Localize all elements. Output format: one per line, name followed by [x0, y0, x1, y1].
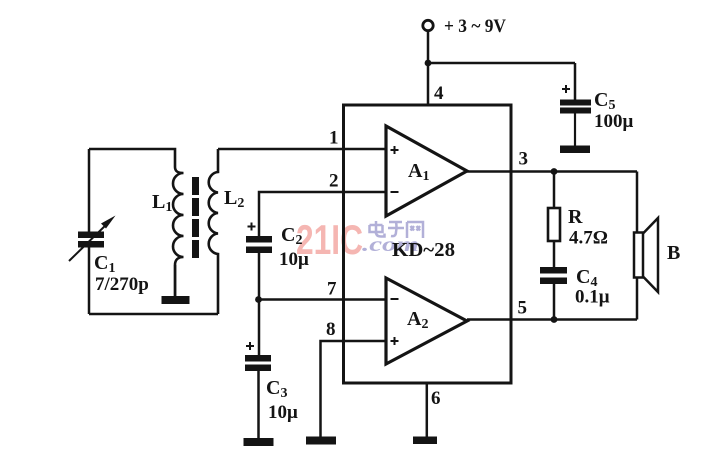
svg-text:1: 1	[329, 128, 339, 149]
svg-text:3: 3	[519, 149, 529, 170]
svg-text:7: 7	[327, 279, 337, 300]
svg-text:10μ: 10μ	[268, 402, 298, 423]
svg-text:KD~28: KD~28	[392, 239, 455, 261]
svg-text:7/270p: 7/270p	[95, 274, 149, 295]
svg-text:2: 2	[329, 171, 339, 192]
svg-text:6: 6	[431, 388, 441, 409]
svg-text:5: 5	[518, 298, 528, 319]
svg-text:R: R	[568, 206, 583, 228]
svg-text:8: 8	[326, 319, 336, 340]
svg-text:+ 3 ~ 9V: + 3 ~ 9V	[444, 16, 506, 37]
svg-text:4: 4	[434, 83, 444, 104]
svg-text:0.1μ: 0.1μ	[575, 287, 610, 308]
svg-text:B: B	[667, 242, 680, 264]
svg-text:100μ: 100μ	[594, 111, 634, 132]
svg-text:10μ: 10μ	[279, 249, 309, 270]
svg-text:4.7Ω: 4.7Ω	[569, 228, 608, 249]
